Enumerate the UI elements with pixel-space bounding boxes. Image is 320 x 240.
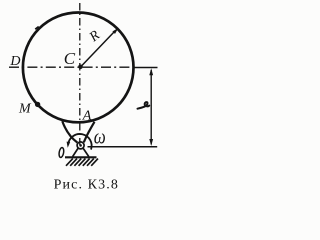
- ground line: [65, 156, 97, 158]
- support triangle: [73, 148, 89, 157]
- extension line right of circle: [133, 67, 158, 69]
- svg-text:ω: ω: [94, 126, 106, 149]
- svg-text:M: M: [18, 102, 32, 117]
- disk (circle): [23, 13, 134, 123]
- radius arrowhead: [112, 28, 118, 34]
- pivot circle O: [77, 142, 84, 149]
- omega arrowhead: [67, 142, 71, 148]
- dimension arrow bottom: [149, 139, 153, 146]
- svg-text:A: A: [82, 109, 92, 124]
- svg-text:D: D: [9, 54, 20, 69]
- point M dot: [35, 102, 40, 107]
- svg-text:C: C: [64, 49, 76, 68]
- ground hatching: [66, 159, 98, 166]
- node C dot: [78, 65, 83, 70]
- label omega: [94, 126, 106, 149]
- bracket left arm: [62, 121, 77, 142]
- omega rotation arrow arc: [68, 134, 92, 150]
- dimension arrow top: [149, 68, 153, 75]
- vertical centerline: [79, 3, 81, 145]
- dimension line l: [150, 70, 152, 144]
- label l (script ell): [138, 102, 150, 109]
- small tick on rim upper-left: [35, 27, 39, 30]
- radius line R: [81, 32, 115, 68]
- bottom reference line: [88, 146, 158, 148]
- svg-text:Рис. К3.8: Рис. К3.8: [54, 177, 119, 192]
- label O: [58, 147, 64, 158]
- horizontal centerline: [9, 66, 134, 68]
- bracket right arm: [84, 122, 95, 143]
